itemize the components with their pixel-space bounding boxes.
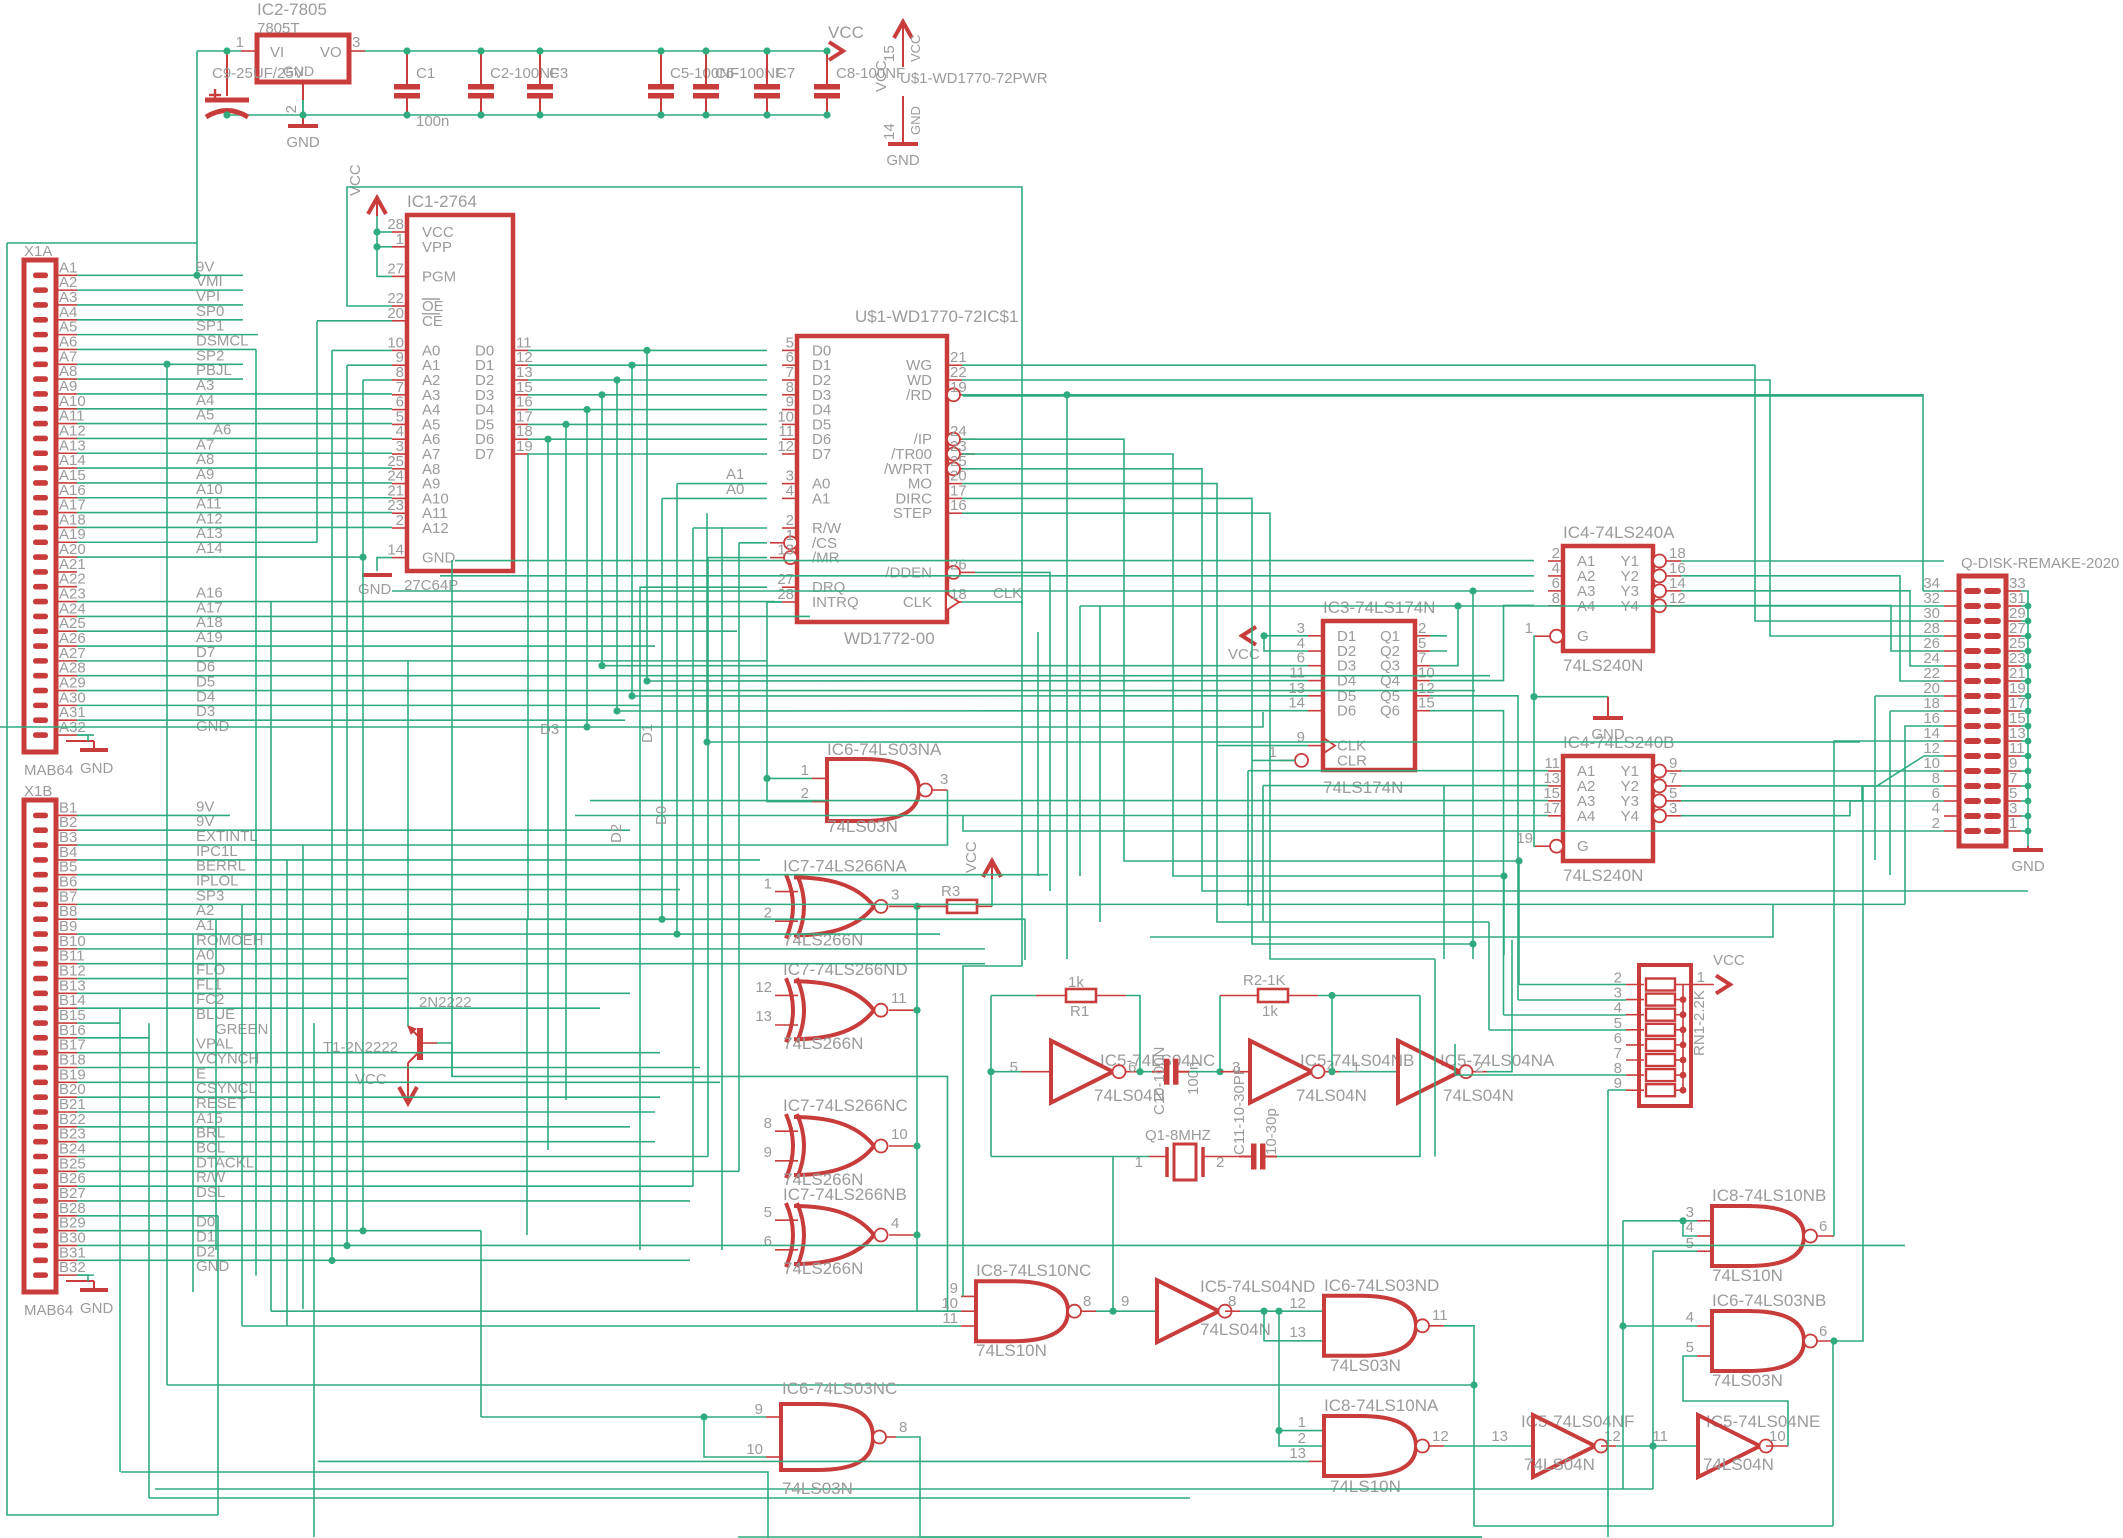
wire vertical bus x=303 (302, 845, 304, 1309)
ground GND (between 240A/240B) (1534, 636, 1535, 846)
wire R1/osc feedback left (991, 1071, 1021, 1073)
svg-text:74LS240N: 74LS240N (1563, 866, 1643, 885)
svg-text:3: 3 (891, 886, 899, 903)
svg-text:CLR: CLR (1337, 752, 1367, 769)
svg-text:27: 27 (387, 260, 404, 277)
wire vertical bus x=193 (192, 934, 194, 1292)
ground GND (7805) (302, 100, 304, 115)
svg-text:GND: GND (2011, 858, 2045, 875)
wire X1A pin A16 net A10 (77, 497, 392, 499)
svg-text:VCC: VCC (873, 60, 890, 92)
svg-text:4: 4 (891, 1215, 899, 1232)
svg-text:6: 6 (1819, 1218, 1827, 1235)
wire /DDEN net (975, 572, 1050, 891)
svg-text:12: 12 (1289, 1295, 1306, 1312)
wire WD1770 left control nets (693, 527, 767, 529)
wire X1A pin A31 net D3 (77, 719, 625, 721)
svg-text:74LS04N: 74LS04N (1296, 1086, 1367, 1105)
wire X1B pin B12 net FLO (77, 978, 408, 980)
wire VCC rail (365, 50, 827, 52)
wire data-bus vertical x=632 (631, 365, 633, 696)
svg-text:VCC: VCC (347, 164, 364, 196)
wire X1A pin A23 net A16 (77, 601, 775, 603)
wire base (437, 1043, 948, 1311)
svg-text:13: 13 (777, 542, 794, 559)
pin CLK (9) with clock wedge (1308, 745, 1323, 747)
svg-text:VCC: VCC (908, 35, 923, 62)
wire X1A pin A15 net A9 (77, 482, 392, 484)
wire X1B pin B21 net RESET (77, 1111, 655, 1113)
svg-text:9: 9 (1121, 1293, 1129, 1310)
svg-text:2: 2 (396, 512, 404, 529)
wire long bottom horizontals (155, 1488, 1653, 1490)
svg-text:12: 12 (755, 979, 772, 996)
wire data line y=424.4 (528, 423, 767, 425)
svg-text:12: 12 (777, 438, 794, 455)
svg-text:13: 13 (1289, 1445, 1306, 1462)
svg-text:15: 15 (881, 45, 898, 62)
wire 240B long inputs (590, 800, 1548, 802)
wire X1B pin B27 net DSL (77, 1200, 690, 1202)
wire X1A pin A29 net D5 (77, 690, 1475, 692)
svg-text:GND: GND (80, 1300, 114, 1317)
wire WD1770 A0/A1 nets (677, 483, 767, 485)
wire X1B pin B17 net VPAL (77, 1052, 660, 1054)
svg-text:9: 9 (764, 1144, 772, 1161)
wire data-bus vertical x=647 (646, 350, 648, 681)
svg-text:GND: GND (80, 760, 114, 777)
svg-text:IC6-74LS03NA: IC6-74LS03NA (827, 740, 942, 759)
svg-text:X1B: X1B (24, 783, 52, 800)
wire X1B pin B7 net SP3 (77, 903, 1905, 905)
wire EPROM A0/A1/A2 down (332, 349, 392, 351)
wire data line y=394.8 (528, 394, 767, 396)
svg-text:WD1772-00: WD1772-00 (844, 629, 935, 648)
wire X1A pin A11 net A5 (77, 423, 392, 425)
svg-text:B32: B32 (59, 1259, 86, 1276)
wire X1B pin B32 net GND (77, 1274, 94, 1276)
wire data-bus vertical x=617 (616, 380, 618, 711)
svg-text:10: 10 (891, 1126, 908, 1143)
wire vertical bus x=481 (480, 1231, 482, 1417)
svg-text:IC2-7805: IC2-7805 (257, 0, 327, 19)
svg-text:12: 12 (1604, 1428, 1621, 1445)
svg-text:D2: D2 (608, 824, 625, 843)
capacitor C9-25UF/25V electrolytic (226, 51, 228, 96)
wire CE net (317, 320, 392, 322)
capacitor C7 (766, 51, 768, 84)
svg-text:15: 15 (1418, 695, 1435, 712)
svg-text:14: 14 (387, 542, 404, 559)
wire X1B pin B9 net A1 (77, 933, 940, 935)
wire vertical bus x=242 (241, 904, 243, 1326)
wire vertical bus x=216 (215, 919, 217, 1250)
wire 04NF out to 04NE (1616, 1445, 1698, 1447)
wire 03NB pin5 net (1683, 1356, 1788, 1446)
capacitor C1 (406, 51, 408, 84)
wire data line y=365.2 (528, 364, 767, 366)
wire X1B pin B25 net DTACKL (77, 1170, 739, 1172)
wire X1A pin A3 net VPI (77, 304, 243, 306)
wire X1B pin B23 net BRL (77, 1141, 655, 1143)
wire X1A pin A25 net A18 (77, 630, 737, 632)
wire 04ND out (1240, 1310, 1324, 1312)
svg-text:8: 8 (899, 1419, 907, 1436)
svg-text:IC3-74LS174N: IC3-74LS174N (1323, 598, 1435, 617)
wire X1A pin A7 net SP2 (77, 363, 243, 365)
wire 240B outputs to connector (1681, 770, 1944, 772)
svg-text:12: 12 (1669, 590, 1686, 607)
svg-text:11: 11 (1432, 1307, 1448, 1324)
svg-text:11: 11 (1652, 1428, 1668, 1445)
svg-text:4: 4 (1686, 1309, 1694, 1326)
svg-text:Q-DISK-REMAKE-2020: Q-DISK-REMAKE-2020 (1961, 555, 2119, 572)
svg-text:GND: GND (422, 550, 456, 567)
svg-text:3: 3 (352, 34, 360, 51)
svg-text:1: 1 (1298, 1414, 1306, 1431)
svg-text:CLK: CLK (993, 585, 1022, 602)
wire data-bus vertical x=677 (676, 484, 678, 934)
wire NA out (1487, 940, 1512, 1072)
capacitor C8-100NF (826, 51, 828, 84)
wire mid vertical x=1038 (1037, 632, 1039, 876)
wire X1A pin A28 net D6 (77, 675, 1490, 677)
wire vertical bus x=256 (255, 349, 257, 1275)
wire 10NB pin5 net (1653, 1251, 1697, 1489)
wire VCC to VCC/VPP/PGM pins (377, 216, 392, 276)
wire vertical bus x=120 (119, 1008, 121, 1472)
svg-text:74LS10N: 74LS10N (1330, 1477, 1401, 1496)
svg-text:Q6: Q6 (1380, 703, 1400, 720)
svg-text:IC7-74LS266NB: IC7-74LS266NB (783, 1185, 907, 1204)
wire data-bus vertical x=587 (586, 410, 588, 727)
wire X1B pin B16 net GREEN (77, 1037, 149, 1039)
wire vertical bus x=218 (217, 1216, 219, 1515)
svg-text:VCC: VCC (1713, 952, 1745, 969)
svg-text:G: G (1577, 838, 1589, 855)
wire X1B pin B14 net FC2 (77, 1007, 600, 1009)
svg-text:12: 12 (1432, 1428, 1449, 1445)
wire RN1 pin nets (1519, 984, 1626, 986)
svg-text:IC7-74LS266NC: IC7-74LS266NC (783, 1096, 908, 1115)
svg-text:VO: VO (320, 44, 342, 61)
wire X1A pin A19 net A13 (77, 541, 317, 543)
wire 03NC output (896, 1437, 920, 1537)
wire X1B pin B4 net IPC1L (77, 859, 760, 861)
wire vertical bus x=317 (316, 321, 318, 542)
svg-text:A1: A1 (812, 490, 830, 507)
svg-text:1: 1 (2009, 815, 2017, 832)
svg-text:VCC: VCC (1228, 646, 1260, 663)
svg-text:74LS174N: 74LS174N (1323, 778, 1403, 797)
svg-text:RN1-2.2K: RN1-2.2K (1691, 990, 1708, 1056)
wire vertical bus x=287 (286, 860, 288, 1326)
svg-text:10: 10 (1769, 1428, 1786, 1445)
svg-text:11: 11 (942, 1310, 958, 1327)
svg-text:2: 2 (1932, 815, 1940, 832)
wire 266 outputs bus (917, 906, 961, 1311)
svg-text:74LS03N: 74LS03N (827, 817, 898, 836)
wire to 10NA pins (1279, 1311, 1324, 1446)
wire 10NB out up (1834, 741, 1944, 1236)
svg-text:A4: A4 (1577, 808, 1595, 825)
svg-text:19: 19 (516, 438, 533, 455)
power VCC (174N D1/D2) (1242, 627, 1256, 645)
wire Q-DISK remaining left pins (963, 395, 1923, 397)
svg-text:2: 2 (801, 785, 809, 802)
wire X1B pin B20 net CSYNCL (77, 1096, 660, 1098)
svg-text:28: 28 (777, 586, 794, 603)
wire X1A pin A4 net SP0 (77, 319, 243, 321)
svg-text:74LS04N: 74LS04N (1524, 1455, 1595, 1474)
svg-text:11: 11 (891, 990, 907, 1007)
wire data-bus vertical x=722 (721, 527, 723, 1250)
wire 03NA output to EXTINTL (77, 790, 948, 845)
svg-text:100n: 100n (1185, 1062, 1202, 1095)
svg-text:74LS04N: 74LS04N (1200, 1320, 1271, 1339)
svg-text:1: 1 (1525, 620, 1533, 637)
svg-text:CLK: CLK (903, 594, 932, 611)
wire X1A pin A14 net A8 (77, 467, 392, 469)
wire A4 from 174N Q4 (1430, 605, 1534, 680)
svg-text:CE: CE (422, 313, 443, 330)
wire 10NB pin3/4 net (1623, 1220, 1697, 1222)
svg-text:VPP: VPP (422, 239, 452, 256)
wire X1B pin B31 net D2 (77, 1259, 690, 1261)
wire 03NB out down (1832, 1341, 1834, 1526)
capacitor C3 (539, 51, 541, 84)
svg-text:14: 14 (881, 123, 898, 140)
power VCC (R3) (991, 879, 993, 906)
wire 03NB pin4 net (1623, 1325, 1697, 1327)
svg-text:18: 18 (950, 586, 967, 603)
wire CLK net (962, 601, 1022, 603)
ground wire (IC1 GND) (377, 558, 392, 571)
svg-text:74LS04N: 74LS04N (1443, 1086, 1514, 1105)
wire GND column (odd pins) (2021, 591, 2028, 846)
voltage regulator IC2-7805 (257, 35, 349, 82)
svg-text:74LS03N: 74LS03N (1330, 1356, 1401, 1375)
svg-text:IC8-74LS10NA: IC8-74LS10NA (1324, 1396, 1439, 1415)
svg-text:IC5-74LS04NA: IC5-74LS04NA (1440, 1051, 1555, 1070)
svg-text:IC5-74LS04ND: IC5-74LS04ND (1200, 1277, 1315, 1296)
wire left frame 9V (7, 242, 197, 244)
svg-text:7805T: 7805T (257, 20, 300, 37)
wire mid vertical x=1113 (1112, 1157, 1114, 1312)
wire X1A pin A6 net DSMCL (77, 348, 256, 350)
wire X1B pin B30 net D1 (77, 1244, 1905, 1246)
wire osc bottom loop left (991, 1156, 1149, 1158)
svg-text:9: 9 (755, 1401, 763, 1418)
svg-text:3: 3 (1669, 800, 1677, 817)
svg-text:C11-10-30PF: C11-10-30PF (1231, 1066, 1248, 1155)
wire X1A pin A2 net VMI (77, 289, 243, 291)
svg-text:MAB64: MAB64 (24, 1302, 73, 1319)
svg-text:D3: D3 (540, 721, 559, 738)
svg-text:GND: GND (1591, 726, 1625, 743)
svg-text:/DDEN: /DDEN (885, 564, 932, 581)
svg-text:1: 1 (236, 34, 244, 51)
svg-text:C7: C7 (776, 65, 795, 82)
wire X1A pin A24 net A17 (77, 615, 810, 617)
wire X1B pin B10 net ROMOEH (77, 948, 985, 950)
svg-text:8: 8 (1228, 1293, 1236, 1310)
ground GND (X1A) (66, 740, 94, 742)
svg-text:13: 13 (1289, 1324, 1306, 1341)
svg-text:U$1-WD1770-72IC$1: U$1-WD1770-72IC$1 (855, 307, 1018, 326)
power VCC arrow (rail end) (829, 42, 843, 60)
wire collector (407, 661, 409, 1026)
power VCC (IC1) (368, 198, 386, 214)
svg-text:10: 10 (746, 1441, 763, 1458)
capacitor C2-100NF (480, 51, 482, 84)
wire X1A pin A10 net A4 (77, 408, 392, 410)
svg-text:17: 17 (1543, 800, 1560, 817)
svg-text:2: 2 (283, 105, 300, 113)
wire 03ND out loop (1444, 1326, 1833, 1526)
svg-text:IC6-74LS03NC: IC6-74LS03NC (782, 1379, 897, 1398)
wire VIN rail (197, 50, 241, 52)
wire X1A pin A1 net 9V (77, 274, 243, 276)
wire 174N Q outputs (1430, 635, 1447, 637)
ground GND (Q-DISK) (2027, 846, 2029, 850)
svg-text:5: 5 (764, 1204, 772, 1221)
capacitor C10-100N (1152, 1071, 1164, 1073)
ground GND (U$1 pwr) (888, 142, 918, 146)
svg-text:/MR: /MR (812, 550, 840, 567)
wire INTRQ (767, 601, 782, 603)
wire 174N CLK/CLR nets (1217, 745, 1308, 747)
wire data-bus vertical x=528 (527, 454, 529, 919)
svg-text:IC4-74LS240A: IC4-74LS240A (1563, 523, 1675, 542)
wire X1B pin B8 net A2 (77, 918, 1025, 920)
wire X1B pin B11 net A0 (77, 963, 985, 965)
wire X1A pin A20 net A14 (77, 556, 363, 558)
wire to 03ND pin13 (1264, 1311, 1324, 1341)
svg-text:6: 6 (1128, 1059, 1136, 1076)
svg-text:74LS266N: 74LS266N (783, 1034, 863, 1053)
wire data-bus vertical x=693 (692, 528, 694, 1186)
svg-text:IC7-74LS266NA: IC7-74LS266NA (783, 856, 907, 875)
wire WD1770 right nets (962, 365, 1944, 621)
svg-text:3: 3 (940, 771, 948, 788)
wire NC out to C10 (1140, 1071, 1152, 1073)
svg-text:74LS10N: 74LS10N (976, 1341, 1047, 1360)
svg-text:6: 6 (764, 1233, 772, 1250)
svg-text:X1A: X1A (24, 243, 52, 260)
svg-text:5: 5 (1010, 1059, 1018, 1076)
svg-text:VCC: VCC (963, 841, 980, 873)
wire 9V drop (196, 51, 198, 275)
wire X1B pin B6 net IPLOL (77, 889, 680, 891)
capacitor C5-100NF (660, 51, 662, 84)
svg-text:74LS03N: 74LS03N (1712, 1371, 1783, 1390)
wire X1A pin A32 net GND (77, 734, 94, 736)
wire X1B pin B1 net 9V (77, 814, 230, 816)
svg-text:/RD: /RD (906, 387, 932, 404)
wire /IP /TR00 /WPRT MO DIRC STEP staircase (962, 439, 1519, 861)
wire X1B pin B19 net E (77, 1081, 720, 1083)
wire OE/CLK vertical lower (963, 602, 1022, 1296)
ground GND (X1B) (66, 1280, 94, 1282)
wire vertical bus x=271 (270, 602, 272, 1311)
wire mid vertical x=1100 (1099, 606, 1101, 922)
wire data line y=350.4 (528, 349, 767, 351)
wire X1B pin B18 net VCYNCH (77, 1067, 700, 1069)
svg-text:8: 8 (764, 1115, 772, 1132)
svg-text:Y4: Y4 (1621, 808, 1639, 825)
wire X1B pin B24 net BCL (77, 1155, 708, 1157)
wire vertical bus x=347 (346, 365, 348, 1245)
power VCC (RN1) (1716, 976, 1730, 994)
wire X1B pin B13 net FL1 (77, 992, 630, 994)
svg-text:IC8-74LS10NB: IC8-74LS10NB (1712, 1186, 1826, 1205)
wire NB out / R2 right (1318, 996, 1332, 1072)
svg-text:VI: VI (270, 44, 284, 61)
svg-text:VCC: VCC (828, 23, 864, 42)
wire osc bottom loop right (1277, 996, 1420, 1157)
wire vertical bus x=363 (362, 380, 364, 1231)
wire vertical bus x=149 (148, 1023, 150, 1498)
svg-text:19: 19 (1516, 830, 1533, 847)
svg-text:C10-100N: C10-100N (1151, 1047, 1168, 1115)
svg-text:IC6-74LS03ND: IC6-74LS03ND (1324, 1276, 1439, 1295)
svg-text:1: 1 (396, 231, 404, 248)
svg-text:C1: C1 (416, 65, 435, 82)
wire vertical bus x=527 (526, 919, 528, 1235)
wire X1A pin A13 net A7 (77, 452, 392, 454)
svg-text:IC6-74LS03NB: IC6-74LS03NB (1712, 1291, 1826, 1310)
svg-text:G: G (1577, 628, 1589, 645)
wire X1B pin B22 net A15 (77, 1126, 630, 1128)
svg-text:8: 8 (1552, 590, 1560, 607)
svg-text:5: 5 (1686, 1235, 1694, 1252)
svg-text:C8-100NF: C8-100NF (836, 65, 905, 82)
wire OE net (347, 187, 1022, 604)
wire data-bus vertical x=548 (547, 439, 549, 1150)
svg-text:STEP: STEP (893, 505, 932, 522)
svg-text:PGM: PGM (422, 268, 456, 285)
svg-text:74LS10N: 74LS10N (1712, 1266, 1783, 1285)
svg-text:MAB64: MAB64 (24, 762, 73, 779)
svg-text:C6-100NF: C6-100NF (715, 65, 784, 82)
svg-text:4: 4 (786, 482, 794, 499)
svg-text:D7: D7 (812, 446, 831, 463)
svg-text:10-30p: 10-30p (1263, 1108, 1280, 1155)
wire 10NA out to 04NF (1444, 1445, 1533, 1447)
wire X1A pin A30 net D4 (77, 704, 640, 706)
wire X1A pin A27 net D7 (77, 660, 767, 662)
svg-text:R2-1K: R2-1K (1243, 972, 1286, 989)
svg-text:74LS240N: 74LS240N (1563, 656, 1643, 675)
svg-text:74LS03N: 74LS03N (782, 1479, 853, 1498)
capacitor C11-10-30PF trimmer (1239, 1156, 1251, 1158)
svg-text:13: 13 (1491, 1428, 1508, 1445)
svg-text:16: 16 (950, 497, 967, 514)
wire 03NB out up (1834, 787, 1863, 1341)
svg-text:1: 1 (1352, 1059, 1360, 1076)
wire vertical bus x=332 (331, 350, 333, 1260)
wire C10 to NB input (1190, 1071, 1220, 1073)
svg-text:GND: GND (908, 106, 923, 135)
svg-text:1: 1 (1697, 969, 1705, 986)
wire bottom long horizontals (271, 1310, 961, 1312)
svg-text:IC8-74LS10NC: IC8-74LS10NC (976, 1261, 1091, 1280)
svg-text:C3: C3 (549, 65, 568, 82)
svg-text:1: 1 (764, 875, 772, 892)
svg-text:R1: R1 (1070, 1003, 1089, 1020)
wire 240A long inputs (455, 560, 1534, 562)
